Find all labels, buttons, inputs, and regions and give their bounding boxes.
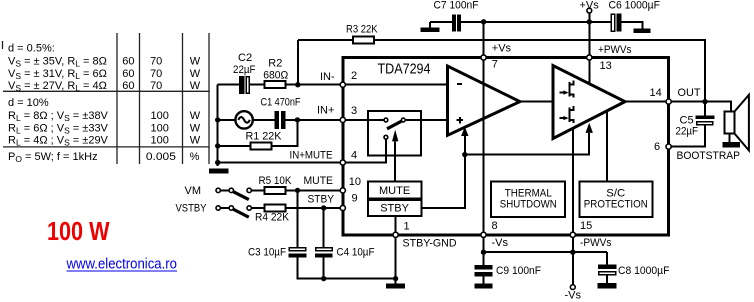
wire IN+ down to R1 bbox=[272, 120, 298, 146]
node pin1 ground junction bbox=[393, 276, 398, 281]
svg-text:C1 470nF: C1 470nF bbox=[261, 97, 301, 109]
svg-text:+PWVs: +PWVs bbox=[598, 44, 632, 56]
op-amp U1 input stage triangle bbox=[448, 66, 520, 135]
capacitor C2 22uF plate hollow bbox=[246, 77, 249, 93]
spec table column line 3 bbox=[182, 33, 184, 164]
capacitor C7 100nF plate left bbox=[452, 15, 456, 32]
pin 9 bbox=[340, 205, 345, 210]
svg-text:22µF: 22µF bbox=[233, 64, 256, 76]
svg-text:R5 10K: R5 10K bbox=[259, 175, 293, 187]
arrowhead at amp1 bottom bbox=[461, 127, 468, 136]
ground C6 bbox=[634, 28, 651, 33]
switch VM pivot circle bbox=[229, 188, 233, 192]
svg-text:70: 70 bbox=[150, 56, 162, 68]
wire IN- into amp1 bbox=[345, 84, 448, 86]
wire pin 1 down to ground bbox=[395, 237, 397, 279]
wire -Vs bottom rail bbox=[484, 251, 608, 253]
capacitor C3 10uF plate hollow bbox=[289, 248, 305, 251]
svg-text:14: 14 bbox=[650, 87, 662, 99]
svg-text:IN+MUTE: IN+MUTE bbox=[290, 149, 333, 161]
svg-text:VS = ± 31V, RL = 6Ω: VS = ± 31V, RL = 6Ω bbox=[8, 68, 107, 81]
wire IN+MUTE line bbox=[218, 162, 341, 164]
capacitor C4 10uF plate hollow bbox=[316, 248, 332, 251]
svg-text:60: 60 bbox=[122, 80, 134, 92]
wire -Vs terminal drop bbox=[572, 252, 574, 284]
svg-text:R3 22K: R3 22K bbox=[346, 23, 378, 35]
op-amp U2 power stage triangle bbox=[553, 66, 625, 139]
input mute switch contact lower bbox=[384, 135, 388, 139]
capacitor C5 22uF plate hollow bbox=[697, 122, 713, 125]
svg-text:8: 8 bbox=[492, 220, 498, 232]
resistor R4 22K bbox=[264, 205, 285, 212]
wire C5 to pin 6 bbox=[671, 125, 705, 147]
svg-text:22µF: 22µF bbox=[676, 126, 699, 138]
svg-text:RL = 4Ω ; VS = ±29V: RL = 4Ω ; VS = ±29V bbox=[8, 135, 109, 148]
node R1 ground junction bbox=[215, 143, 220, 148]
svg-text:4: 4 bbox=[351, 149, 357, 161]
pin 13 bbox=[587, 55, 592, 60]
wire OUT down to C5 bbox=[704, 102, 706, 116]
svg-text:OUT: OUT bbox=[678, 87, 701, 99]
svg-text:W: W bbox=[190, 56, 201, 68]
svg-text:STBY: STBY bbox=[308, 194, 335, 206]
ground C9 bbox=[475, 283, 493, 288]
wire C4 down to ground rail bbox=[323, 258, 325, 279]
wire amp2 bottom edge down to S/C protection box bbox=[606, 112, 608, 181]
ground input network bbox=[209, 169, 229, 174]
wire C3 riser bbox=[297, 190, 299, 247]
svg-text:PROTECTION: PROTECTION bbox=[584, 198, 648, 210]
wire +Vs vertical through pin 7 down to pin 8 bbox=[483, 22, 485, 233]
wire amp2 output to pin 14 bbox=[625, 101, 668, 103]
pin 6 bbox=[666, 144, 671, 149]
capacitor C7 100nF plate right bbox=[457, 15, 461, 32]
switch VSTBY pivot circle bbox=[229, 206, 233, 210]
svg-text:VM: VM bbox=[185, 185, 202, 197]
capacitor C6 1000uF plate solid bbox=[617, 14, 622, 32]
wire +Vs terminal down through pin 13 to amp2 top edge bbox=[588, 13, 590, 83]
svg-text:W: W bbox=[190, 110, 201, 122]
svg-text:SHUTDOWN: SHUTDOWN bbox=[500, 198, 557, 210]
svg-text:BOOTSTRAP: BOOTSTRAP bbox=[677, 150, 741, 162]
ground stby net bbox=[386, 284, 405, 289]
capacitor C9 100nF plate top bbox=[475, 265, 493, 269]
svg-text:15: 15 bbox=[580, 220, 592, 232]
wire +Vs rail segment left bbox=[430, 21, 453, 23]
wire pin 4 to switch lower contact bbox=[345, 140, 386, 163]
node mute-net junction bbox=[462, 152, 467, 157]
wire switch to amp1 plus input bbox=[406, 119, 448, 121]
svg-text:100: 100 bbox=[151, 135, 169, 147]
wire STBY box down to pin 1 bbox=[395, 216, 397, 233]
wire feedback riser bbox=[297, 40, 299, 84]
node C4 ground junction bbox=[321, 276, 326, 281]
svg-text:C6 1000µF: C6 1000µF bbox=[609, 0, 661, 12]
spec table right border bbox=[208, 33, 210, 164]
switch VM lever bbox=[233, 191, 249, 199]
pin 14 bbox=[666, 99, 671, 104]
wire source to C1 bbox=[253, 119, 275, 121]
wire R4 to pin 9 bbox=[285, 207, 340, 209]
svg-text:-Vs: -Vs bbox=[492, 237, 509, 249]
signal source generator bbox=[235, 111, 252, 128]
transistor mosfet glyph upper in U2 bbox=[560, 80, 574, 97]
svg-text:STBY: STBY bbox=[380, 203, 409, 215]
node feedback/IN- junction bbox=[295, 82, 300, 87]
pin 1 bbox=[393, 232, 398, 237]
svg-text:-PWVs: -PWVs bbox=[580, 237, 612, 249]
wire C2 to R2 bbox=[250, 84, 264, 86]
node +Vs rail junction bbox=[587, 19, 592, 24]
svg-text:W: W bbox=[190, 80, 201, 92]
node IN+MUTE ground junction bbox=[215, 160, 220, 165]
node IN+ junction bbox=[295, 117, 300, 122]
node stby/C4 junction bbox=[321, 205, 326, 210]
switch VM output contact bbox=[247, 188, 251, 192]
link underline bbox=[67, 270, 178, 272]
ground C8 bbox=[598, 283, 617, 288]
input mute switch lever bbox=[387, 120, 405, 129]
capacitor C2 22uF plate solid bbox=[239, 76, 245, 94]
node C7 rail junction bbox=[481, 19, 486, 24]
svg-text:100: 100 bbox=[151, 122, 169, 134]
wire C9 ground stub bbox=[483, 277, 485, 284]
svg-text:+Vs: +Vs bbox=[580, 0, 600, 11]
wire speaker ground stub bbox=[729, 134, 731, 143]
speaker horn bbox=[735, 95, 749, 151]
svg-text:1: 1 bbox=[404, 221, 410, 233]
svg-text:-Vs: -Vs bbox=[565, 290, 582, 302]
svg-text:13: 13 bbox=[600, 60, 612, 72]
wire C4 riser bbox=[323, 208, 325, 247]
svg-text:IN+: IN+ bbox=[317, 105, 334, 117]
svg-text:www.electronica.ro: www.electronica.ro bbox=[66, 257, 177, 273]
resistor R1 22K bbox=[251, 142, 272, 149]
capacitor C8 1000uF plate solid bbox=[598, 265, 616, 270]
svg-text:MUTE: MUTE bbox=[379, 185, 410, 197]
switch VSTBY lever bbox=[233, 209, 249, 217]
svg-text:70: 70 bbox=[150, 80, 162, 92]
speaker body bbox=[725, 112, 735, 134]
svg-text:100 W: 100 W bbox=[47, 216, 110, 246]
svg-text:70: 70 bbox=[150, 68, 162, 80]
wire amp1 output to amp2 input bbox=[520, 101, 553, 103]
svg-text:VS = ± 35V, RL = 8Ω: VS = ± 35V, RL = 8Ω bbox=[8, 56, 107, 69]
svg-text:C7 100nF: C7 100nF bbox=[434, 0, 479, 11]
svg-text:60: 60 bbox=[122, 56, 134, 68]
svg-text:PO = 5W; f = 1kHz: PO = 5W; f = 1kHz bbox=[8, 151, 98, 164]
svg-text:7: 7 bbox=[492, 59, 498, 71]
svg-text:6: 6 bbox=[654, 141, 660, 153]
switch VSTBY output contact bbox=[247, 206, 251, 210]
ground speaker bbox=[723, 142, 741, 147]
pin 10 bbox=[340, 188, 345, 193]
wire VM contact to R5 bbox=[252, 189, 264, 191]
input mute switch contact left bbox=[384, 118, 388, 122]
wire C9 riser bbox=[483, 252, 485, 265]
node OUT junction bbox=[702, 99, 707, 104]
svg-text:STBY-GND: STBY-GND bbox=[403, 237, 457, 249]
pin 3 bbox=[340, 117, 345, 122]
svg-text:C2: C2 bbox=[238, 52, 252, 64]
wire pin 8 drop bbox=[483, 237, 485, 252]
spec table separator line 2 bbox=[3, 146, 210, 148]
svg-text:3: 3 bbox=[351, 105, 357, 117]
capacitor C6 1000uF plate hollow bbox=[611, 14, 614, 31]
wire ground stub bbox=[395, 279, 397, 284]
svg-text:VS = ± 27V, RL = 4Ω: VS = ± 27V, RL = 4Ω bbox=[8, 80, 107, 93]
wire pin 3 through switch box bbox=[345, 119, 383, 121]
capacitor C1 470nF plate right bbox=[281, 111, 285, 129]
svg-text:TDA7294: TDA7294 bbox=[378, 61, 431, 77]
svg-text:0.005: 0.005 bbox=[146, 151, 176, 163]
svg-text:+Vs: +Vs bbox=[492, 42, 512, 54]
wire VSTBY contact to R4 bbox=[252, 207, 264, 209]
wire C1 to pin 3 bbox=[285, 119, 340, 121]
arrowhead at amp2 bottom bbox=[586, 123, 593, 133]
wire mute net horizontal to amp2 arrow bbox=[465, 133, 589, 155]
wire VM switch link bbox=[221, 189, 229, 191]
wire amp2 bottom edge down to pin 15 and to -PWVs rail bbox=[572, 129, 574, 253]
node mute/C3 junction bbox=[295, 188, 300, 193]
wire C7 ground drop bbox=[429, 22, 431, 28]
wire C8 drop bbox=[606, 252, 608, 264]
svg-text:C3 10µF: C3 10µF bbox=[248, 247, 286, 259]
node source ground junction bbox=[215, 117, 220, 122]
resistor R3 22K bbox=[353, 37, 374, 44]
svg-text:R4 22K: R4 22K bbox=[255, 212, 290, 224]
wire VSTBY switch link bbox=[221, 207, 229, 209]
svg-text:R2: R2 bbox=[268, 58, 282, 70]
STBY logic box bbox=[368, 200, 421, 216]
spec table column line 1 bbox=[116, 33, 118, 164]
svg-text:RL = 8Ω ; VS = ±38V: RL = 8Ω ; VS = ±38V bbox=[8, 110, 109, 123]
switch VSTBY terminal circle bbox=[216, 206, 220, 210]
capacitor C1 470nF plate left bbox=[275, 111, 279, 129]
wire +Vs rail center segment bbox=[461, 21, 611, 23]
svg-text:W: W bbox=[190, 122, 201, 134]
pin 7 bbox=[481, 55, 486, 60]
svg-text:%: % bbox=[190, 151, 200, 163]
svg-text:60: 60 bbox=[122, 68, 134, 80]
IC TDA7294 body rectangle bbox=[343, 58, 669, 235]
signal source sine symbol bbox=[238, 117, 250, 123]
wire R5 to pin 10 bbox=[285, 189, 340, 191]
op-amp U1 plus marker bbox=[457, 119, 463, 121]
S/C PROTECTION box bbox=[580, 181, 653, 216]
pin 2 bbox=[340, 82, 345, 87]
svg-text:RL = 6Ω ; VS = ±33V: RL = 6Ω ; VS = ±33V bbox=[8, 122, 109, 135]
svg-text:2: 2 bbox=[351, 70, 357, 82]
svg-text:10: 10 bbox=[349, 176, 361, 188]
THERMAL SHUTDOWN box bbox=[491, 181, 565, 216]
svg-text:d = 10%: d = 10% bbox=[8, 97, 49, 109]
svg-text:C4 10µF: C4 10µF bbox=[337, 247, 375, 259]
input mute switch box bbox=[368, 111, 421, 156]
svg-text:680Ω: 680Ω bbox=[263, 69, 288, 81]
spec table column line 2 bbox=[139, 33, 141, 164]
svg-text:9: 9 bbox=[352, 193, 358, 205]
MUTE logic box bbox=[368, 182, 421, 199]
wire source left to ground line bbox=[218, 119, 236, 121]
wire +Vs rail right segment to C6 ground bbox=[622, 22, 643, 29]
wire STBY box right side bbox=[421, 136, 465, 208]
wire R1 to ground line bbox=[218, 145, 251, 147]
op-amp U1 minus marker bbox=[457, 83, 462, 85]
capacitor C9 100nF plate bottom bbox=[475, 272, 493, 276]
svg-text:IN-: IN- bbox=[320, 71, 335, 83]
arrowhead at input mute switch bbox=[392, 130, 398, 142]
pin 15 bbox=[570, 232, 575, 237]
wire MUTE box up to input switch arrow bbox=[394, 141, 396, 181]
capacitor C8 1000uF plate hollow bbox=[599, 272, 616, 275]
resistor R5 10K bbox=[264, 187, 285, 194]
pin 8 bbox=[481, 232, 486, 237]
svg-text:C9 100nF: C9 100nF bbox=[496, 265, 541, 277]
wire feedback top run to OUT bbox=[298, 40, 705, 100]
svg-text:d = 0.5%:: d = 0.5%: bbox=[8, 42, 55, 54]
svg-text:MUTE: MUTE bbox=[304, 175, 334, 187]
wire C3 down to ground rail bbox=[298, 258, 396, 279]
capacitor C3 10uF plate solid bbox=[289, 254, 307, 258]
resistor R2 680ohm bbox=[264, 81, 285, 88]
spec table separator line 1 bbox=[3, 90, 210, 92]
capacitor C4 10uF plate solid bbox=[315, 254, 333, 258]
svg-text:W: W bbox=[190, 68, 201, 80]
wire C8 ground stub bbox=[606, 275, 608, 283]
svg-text:C8 1000µF: C8 1000µF bbox=[618, 265, 670, 277]
terminal -Vs bbox=[570, 285, 575, 290]
svg-text:VSTBY: VSTBY bbox=[176, 203, 208, 215]
svg-text:W: W bbox=[190, 135, 201, 147]
svg-text:100: 100 bbox=[151, 110, 169, 122]
node C9 junction bbox=[481, 250, 486, 255]
spec table left border tick bbox=[2, 41, 4, 49]
svg-text:R1 22K: R1 22K bbox=[246, 131, 283, 143]
wire OUT from pin 14 to speaker bbox=[671, 102, 731, 112]
capacitor C5 22uF plate solid bbox=[695, 115, 714, 119]
switch VM terminal circle bbox=[216, 188, 220, 192]
wire R2 to pin 2 with feedback tap bbox=[285, 84, 340, 86]
node -Vs terminal junction bbox=[570, 250, 575, 255]
pin 4 bbox=[340, 160, 345, 165]
ground C7 bbox=[421, 28, 440, 33]
input mute switch contact right bbox=[401, 118, 405, 122]
terminal +Vs bbox=[587, 8, 592, 13]
wire IN- net left segment bbox=[218, 84, 240, 86]
wire input ground vertical bbox=[217, 85, 219, 167]
transistor mosfet glyph lower in U2 bbox=[560, 106, 574, 123]
